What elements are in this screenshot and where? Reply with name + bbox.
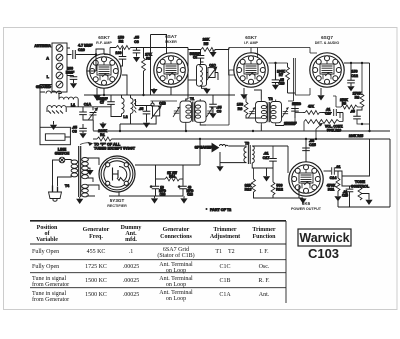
capacitor C4: [115, 48, 126, 67]
svg-text:Generator: Generator: [83, 227, 110, 233]
capacitor C9 .05: [209, 95, 221, 118]
loop antenna coil L1 main: [47, 103, 75, 114]
svg-text:Osc.: Osc.: [259, 264, 270, 270]
svg-text:C7: C7: [100, 100, 104, 104]
resistor R3 27K: [137, 48, 153, 96]
capacitor C15b .01: [342, 186, 353, 198]
svg-text:R11: R11: [328, 188, 335, 192]
diode load wires V4: [284, 88, 310, 125]
loop antenna frame: [40, 127, 70, 144]
svg-text:R12: R12: [276, 188, 283, 192]
wire right edge riser: [338, 139, 390, 207]
volume control R10 500K: [304, 113, 343, 140]
capacitor C16 .05: [272, 62, 285, 90]
label 220K R10b: [349, 134, 364, 138]
wire rectifier output B+: [135, 140, 200, 166]
svg-text:6SK7: 6SK7: [98, 35, 110, 40]
svg-text:MMF: MMF: [66, 71, 75, 75]
wire 6K6 screen: [305, 139, 307, 162]
svg-text:on Loop: on Loop: [166, 282, 186, 288]
svg-text:SPEAKER: SPEAKER: [195, 146, 213, 150]
svg-text:C12: C12: [351, 74, 358, 78]
wire avc left: [92, 120, 94, 131]
trimmer C1A: [66, 103, 111, 121]
wire IF grid: [206, 70, 234, 125]
main bus B+ y131.8: [93, 130, 390, 132]
svg-text:R14: R14: [169, 175, 175, 179]
svg-text:L2: L2: [123, 115, 127, 119]
svg-text:R.F. AMP: R.F. AMP: [96, 41, 112, 45]
svg-text:T2: T2: [268, 97, 272, 101]
svg-text:1500 KC: 1500 KC: [85, 292, 107, 298]
loop antenna coil L1 upper: [40, 91, 78, 127]
svg-text:from Generator: from Generator: [32, 296, 69, 303]
svg-text:TUBES EXCEPT 5Y3GT: TUBES EXCEPT 5Y3GT: [94, 147, 136, 151]
speaker: [195, 144, 247, 167]
svg-text:C9: C9: [217, 110, 222, 114]
arrow into loop: [50, 121, 57, 130]
svg-text:220K R15: 220K R15: [349, 134, 364, 138]
IF transformer T1: [173, 97, 213, 131]
svg-text:POWER OUTPUT: POWER OUTPUT: [291, 207, 322, 211]
svg-text:.1: .1: [129, 249, 134, 255]
tube V3 6SK7 I.F. AMP: [234, 53, 268, 87]
ground T4 core: [76, 197, 83, 204]
capacitor C10 .05: [322, 108, 340, 118]
ground below V2: [153, 88, 155, 89]
resistor R1 220K: [93, 129, 120, 141]
svg-text:6SA7: 6SA7: [165, 34, 177, 39]
tube V4 6SQ7 DET. &amp; AUDIO: [310, 53, 344, 87]
capacitor C7 50MMF: [96, 95, 121, 117]
ground 6K6 cathode: [263, 186, 307, 204]
svg-text:R7: R7: [279, 73, 283, 77]
svg-text:Warwick: Warwick: [299, 231, 349, 245]
svg-text:C1C: C1C: [209, 63, 216, 67]
svg-text:C10: C10: [325, 111, 331, 115]
svg-text:(Stator of C1B): (Stator of C1B): [157, 252, 194, 259]
svg-text:R. F.: R. F.: [258, 278, 270, 284]
svg-text:C1B: C1B: [219, 278, 230, 284]
line switch: [53, 148, 70, 186]
wire AVC risers: [294, 58, 296, 101]
capacitor C21 200 MMF: [66, 67, 78, 89]
svg-text:SWITCH: SWITCH: [55, 152, 70, 156]
svg-text:R8: R8: [355, 96, 360, 100]
svg-text:T1: T1: [190, 97, 194, 101]
svg-text:C103: C103: [308, 246, 339, 261]
wire osc grid: [151, 101, 178, 103]
svg-text:1500 KC: 1500 KC: [85, 278, 107, 284]
resistor R13 82K: [245, 168, 273, 198]
svg-text:mfd.: mfd.: [125, 237, 137, 243]
tube V1 6SK7 R.F. AMP: [87, 54, 121, 88]
oscillator coil L3 shielded: [188, 58, 207, 88]
svg-text:I.F. AMP: I.F. AMP: [244, 41, 259, 45]
svg-text:.01: .01: [335, 165, 340, 169]
capacitor C3 .05: [72, 124, 87, 138]
svg-text:T3: T3: [245, 141, 249, 145]
trimmer C1B: [120, 102, 166, 131]
wire ground terminal: [40, 48, 70, 92]
wire T3 to 6K6 plate: [287, 146, 289, 173]
svg-text:100: 100: [115, 51, 121, 55]
capacitor C20 4.7 MMF: [67, 44, 96, 59]
svg-text:ANTENNA: ANTENNA: [34, 44, 51, 48]
svg-text:500K R10: 500K R10: [327, 128, 342, 132]
ground speaker: [216, 166, 223, 171]
capacitor C18 40 MFD: [178, 165, 194, 204]
svg-text:C17: C17: [263, 156, 270, 160]
output transformer T3: [220, 141, 288, 168]
wire antenna to V1 grid: [87, 49, 104, 71]
trimmer C1C: [207, 63, 219, 80]
capacitor C14 .01: [329, 165, 342, 180]
ground tone control: [365, 200, 372, 205]
tube V2 6SA7 MIXER: [154, 53, 188, 87]
power transformer T4: [58, 146, 100, 197]
wire mixer grid: [151, 35, 172, 96]
svg-text:C1B: C1B: [159, 102, 166, 106]
svg-text:Adjustment: Adjustment: [210, 234, 240, 240]
svg-text:PART OF T2: PART OF T2: [210, 208, 231, 212]
wire plate bus y47.5: [144, 48, 230, 100]
resistor R5 2.2K: [201, 38, 217, 58]
svg-text:C8: C8: [193, 55, 197, 59]
resistor R14 1K 2W: [156, 171, 184, 181]
Warwick nameplate: [298, 229, 351, 261]
svg-text:C1A: C1A: [84, 103, 92, 107]
capacitor C13 .05: [349, 110, 369, 125]
ground T4 center tap: [86, 170, 93, 175]
svg-text:Fully Open: Fully Open: [32, 264, 59, 270]
svg-text:47K: 47K: [308, 104, 315, 108]
svg-text:Freq.: Freq.: [89, 234, 103, 240]
junction dots: [103, 94, 371, 140]
capacitor C19 16 MFD: [150, 165, 167, 204]
tube V5 6K6 POWER OUTPUT: [289, 162, 323, 196]
capacitor C12 150 MMF: [347, 62, 358, 92]
svg-text:R13: R13: [245, 188, 252, 192]
antenna coil L2: [104, 75, 136, 124]
capacitor C5 .05: [136, 99, 153, 128]
svg-text:R1: R1: [100, 133, 105, 137]
arrow avc: [102, 122, 104, 124]
svg-text:C18: C18: [187, 193, 193, 197]
svg-text:Ant.: Ant.: [259, 292, 270, 298]
svg-text:R6: R6: [238, 107, 243, 111]
table: [30, 221, 286, 303]
svg-text:+: +: [178, 185, 180, 189]
svg-text:from Generator: from Generator: [32, 281, 69, 288]
resistor R9 250K: [333, 96, 362, 109]
svg-text:Fully Open: Fully Open: [32, 249, 59, 255]
wire 6K6 grid right: [324, 170, 330, 172]
capacitor C11 250MMF: [284, 102, 302, 126]
svg-text:GROUND: GROUND: [36, 85, 52, 89]
svg-text:.05: .05: [139, 107, 144, 111]
svg-text:Function: Function: [252, 234, 276, 240]
svg-text:.00025: .00025: [123, 292, 140, 298]
wire top bus y47.5: [229, 48, 317, 76]
svg-text:DET. & AUDIO: DET. & AUDIO: [315, 41, 340, 45]
tone control R16: [335, 139, 370, 200]
svg-text:455 KC: 455 KC: [87, 249, 106, 255]
svg-text:6SQ7: 6SQ7: [321, 35, 333, 40]
tube V6 5Y3GT RECTIFIER: [99, 156, 135, 192]
svg-text:C20: C20: [78, 48, 85, 52]
svg-text:R2: R2: [119, 40, 124, 44]
label part of T2: [206, 208, 232, 212]
svg-text:C3: C3: [72, 130, 77, 134]
svg-text:Trimmer: Trimmer: [252, 227, 276, 233]
ground below V1: [96, 88, 98, 95]
svg-text:RECTIFIER: RECTIFIER: [107, 204, 127, 208]
svg-text:I. F.: I. F.: [259, 249, 269, 255]
svg-text:on Loop: on Loop: [166, 268, 186, 274]
svg-text:1725 KC: 1725 KC: [85, 264, 107, 270]
svg-text:1MEG: 1MEG: [292, 102, 302, 106]
capacitor C17 .01: [263, 146, 277, 168]
svg-text:5Y3GT: 5Y3GT: [110, 198, 125, 203]
main bus AVC y139.5: [112, 138, 391, 140]
antenna terminal strip: [52, 43, 67, 92]
ground oscillator: [203, 89, 210, 94]
svg-text:.00025: .00025: [123, 278, 140, 284]
svg-text:Generator: Generator: [163, 227, 190, 233]
svg-text:250MMF: 250MMF: [284, 122, 297, 126]
svg-text:Variable: Variable: [36, 237, 58, 243]
svg-text:Trimmer: Trimmer: [213, 227, 237, 233]
resistor R8 270K: [353, 62, 364, 116]
svg-text:.00025: .00025: [123, 264, 140, 270]
svg-text:+: +: [150, 185, 152, 189]
svg-text:C14: C14: [330, 176, 338, 180]
svg-text:TONE: TONE: [355, 180, 366, 184]
svg-text:C1A: C1A: [219, 292, 231, 298]
svg-text:.05: .05: [350, 110, 355, 114]
svg-text:C6: C6: [134, 40, 139, 44]
ground below V3: [240, 88, 247, 100]
svg-text:on Loop: on Loop: [166, 296, 186, 302]
resistor R7 100K: [269, 63, 296, 93]
arrow B- tap: [263, 168, 270, 182]
label to F of all tubes: [80, 142, 136, 150]
svg-text:C15: C15: [309, 143, 316, 147]
capacitor C6 .05: [133, 36, 141, 63]
svg-text:C16: C16: [278, 82, 284, 86]
capacitor C8 50 MMF: [190, 50, 205, 63]
resistor R12 560: [263, 168, 283, 198]
svg-text:4.7 MMF: 4.7 MMF: [78, 44, 93, 48]
svg-text:R5: R5: [204, 42, 209, 46]
wire V4 plate right: [344, 63, 370, 131]
AC plug: [49, 186, 62, 202]
resistor R9 47K: [295, 104, 322, 114]
ground below V4: [317, 88, 324, 101]
grid cap terminal: [151, 103, 154, 106]
wire B- return: [109, 192, 183, 196]
svg-text:C15: C15: [342, 194, 348, 198]
resistor R6 150: [237, 95, 261, 118]
resistor R11 470K: [327, 171, 342, 201]
resistor R2 150: [104, 36, 137, 55]
svg-text:T1 T2: T1 T2: [215, 249, 234, 255]
bus y95: [84, 94, 235, 96]
IF transformer T2: [249, 90, 289, 131]
svg-text:6SK7: 6SK7: [245, 35, 257, 40]
svg-text:C1C: C1C: [219, 264, 230, 270]
capacitor C15 .05: [302, 139, 316, 151]
svg-text:A: A: [46, 57, 49, 61]
svg-text:Connections: Connections: [160, 234, 192, 240]
